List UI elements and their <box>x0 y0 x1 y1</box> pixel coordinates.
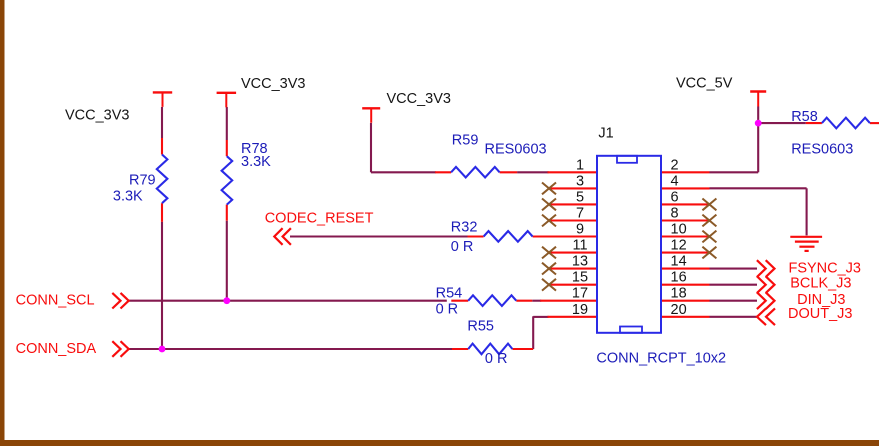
svg-text:3.3K: 3.3K <box>241 154 271 170</box>
svg-text:0 R: 0 R <box>451 239 474 255</box>
svg-text:18: 18 <box>671 286 687 302</box>
svg-text:0 R: 0 R <box>485 351 508 367</box>
svg-text:6: 6 <box>671 189 679 205</box>
svg-text:VCC_3V3: VCC_3V3 <box>387 91 451 107</box>
svg-text:R54: R54 <box>436 286 463 302</box>
svg-text:FSYNC_J3: FSYNC_J3 <box>788 260 861 276</box>
svg-text:3.3K: 3.3K <box>113 189 143 205</box>
svg-text:R79: R79 <box>129 173 156 189</box>
svg-text:VCC_3V3: VCC_3V3 <box>241 76 305 92</box>
svg-text:DOUT_J3: DOUT_J3 <box>788 306 852 322</box>
svg-text:R55: R55 <box>467 318 494 334</box>
svg-text:CONN_RCPT_10x2: CONN_RCPT_10x2 <box>596 351 726 367</box>
svg-text:CODEC_RESET: CODEC_RESET <box>265 211 374 227</box>
svg-text:3: 3 <box>576 173 584 189</box>
svg-text:VCC_5V: VCC_5V <box>676 76 733 92</box>
svg-text:9: 9 <box>576 222 584 238</box>
svg-text:17: 17 <box>572 286 588 302</box>
svg-text:15: 15 <box>572 270 588 286</box>
svg-text:BCLK_J3: BCLK_J3 <box>790 275 851 291</box>
svg-text:4: 4 <box>671 173 679 189</box>
svg-text:R58: R58 <box>791 109 818 125</box>
svg-text:VCC_3V3: VCC_3V3 <box>65 107 129 123</box>
svg-text:8: 8 <box>671 206 679 222</box>
svg-text:10: 10 <box>671 222 687 238</box>
svg-text:R32: R32 <box>451 219 478 235</box>
svg-text:RES0603: RES0603 <box>485 141 547 157</box>
svg-text:CONN_SDA: CONN_SDA <box>16 341 97 357</box>
svg-text:2: 2 <box>671 157 679 173</box>
svg-text:0 R: 0 R <box>436 302 459 318</box>
svg-text:7: 7 <box>576 206 584 222</box>
svg-text:1: 1 <box>576 157 584 173</box>
svg-text:5: 5 <box>576 189 584 205</box>
svg-text:CONN_SCL: CONN_SCL <box>16 293 95 309</box>
svg-text:20: 20 <box>671 302 687 318</box>
svg-text:12: 12 <box>671 238 687 254</box>
svg-text:19: 19 <box>572 302 588 318</box>
svg-text:13: 13 <box>572 254 588 270</box>
svg-text:14: 14 <box>671 254 687 270</box>
svg-text:R59: R59 <box>452 132 479 148</box>
svg-text:J1: J1 <box>598 126 613 142</box>
svg-text:11: 11 <box>572 238 587 254</box>
svg-text:16: 16 <box>671 270 687 286</box>
svg-text:RES0603: RES0603 <box>791 141 853 157</box>
